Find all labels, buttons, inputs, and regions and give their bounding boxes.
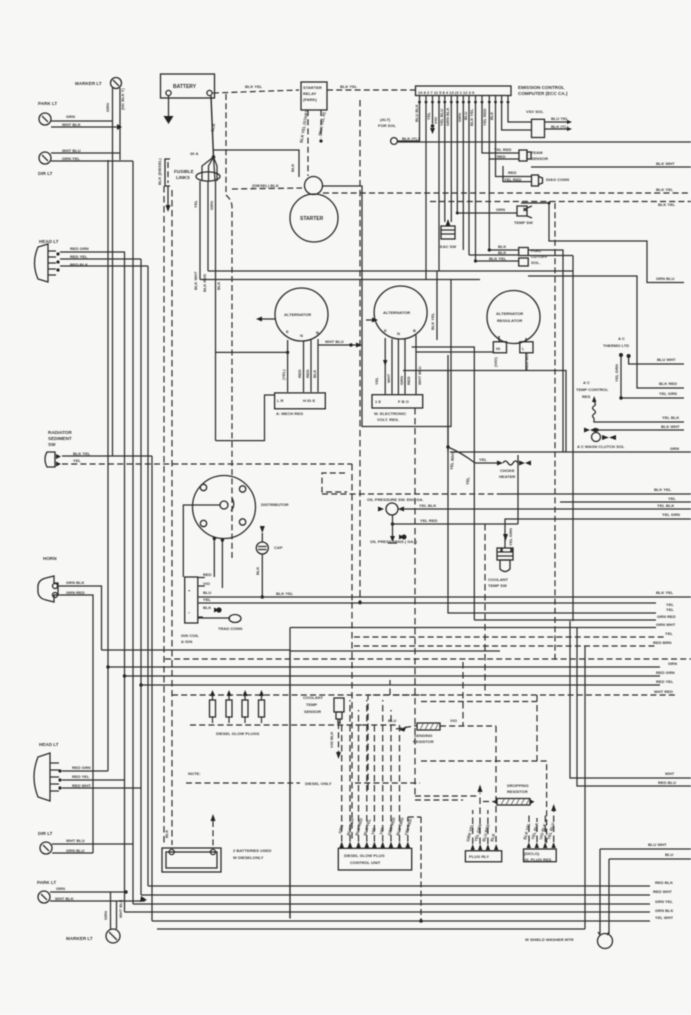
svg-text:BLU WHT: BLU WHT	[657, 357, 676, 362]
svg-text:BLK RED: BLK RED	[202, 274, 207, 292]
AC magn clutch sol	[577, 433, 625, 450]
svg-text:SW: SW	[48, 442, 56, 447]
alternator 1	[275, 288, 328, 341]
svg-text:DISTRIBUTOR: DISTRIBUTOR	[261, 502, 289, 507]
svg-text:BLK: BLK	[312, 370, 317, 378]
wire thermo down	[614, 357, 621, 398]
connector bracket left of links	[157, 158, 171, 212]
svg-text:YEL: YEL	[479, 457, 487, 462]
svg-text:W DIESELONLY: W DIESELONLY	[233, 855, 264, 860]
wire washer feeds	[600, 842, 691, 934]
svg-text:YEL GRN: YEL GRN	[508, 528, 513, 546]
wire big box left edge	[289, 628, 291, 919]
svg-text:RES: RES	[582, 394, 591, 399]
svg-text:DIESEL ONLY: DIESEL ONLY	[305, 781, 332, 786]
svg-text:RED BRN: RED BRN	[653, 640, 672, 645]
distributor	[193, 476, 289, 539]
wire coil pin stubs	[198, 572, 222, 617]
svg-text:WHT BLU: WHT BLU	[62, 148, 81, 153]
wire battery to solenoid	[214, 150, 299, 177]
svg-text:(DIESEL) BLK: (DIESEL) BLK	[252, 183, 279, 188]
svg-text:GRN BLU: GRN BLU	[656, 276, 675, 281]
radiator sediment switch	[45, 430, 91, 467]
svg-text:TEAM: TEAM	[531, 150, 543, 155]
svg-text:WHT BLU: WHT BLU	[417, 366, 422, 385]
svg-text:TEMP SW: TEMP SW	[514, 220, 533, 225]
glow plug resistor box	[522, 804, 556, 862]
svg-text:VSV SOL: VSV SOL	[526, 109, 544, 114]
dashed verticals diesel pair	[164, 186, 172, 845]
electronic volt regulator box	[372, 395, 423, 422]
svg-text:GRN RED: GRN RED	[657, 614, 676, 619]
starter motor	[290, 194, 338, 242]
wire y370 across right	[403, 371, 566, 453]
wire bottom bus yel-wht	[152, 915, 674, 921]
svg-text:VIO: VIO	[203, 581, 210, 586]
left trunk vertical 5	[140, 259, 142, 895]
wire relay down to solenoid	[299, 108, 327, 176]
wire head-light lower leads	[62, 771, 141, 788]
oil press sender	[370, 515, 418, 544]
svg-text:BLU WHT: BLU WHT	[648, 842, 667, 847]
wire blk-wht right line	[531, 161, 691, 167]
svg-text:FUSIBLE: FUSIBLE	[174, 169, 194, 174]
svg-text:RED: RED	[497, 154, 506, 159]
wire alternator1 pins to mech reg	[281, 339, 318, 392]
wire bus grn y667	[108, 661, 677, 667]
wire yel-red y524	[393, 455, 519, 524]
svg-text:GRN: GRN	[668, 661, 677, 666]
svg-text:RED WHT: RED WHT	[72, 783, 91, 788]
svg-text:BLK (DIESEL): BLK (DIESEL)	[157, 158, 162, 185]
svg-text:BLK: BLK	[498, 244, 506, 249]
wire alternator2 pins to volt reg	[374, 335, 422, 394]
svg-text:OIL PRESS SENS ( GA. ): OIL PRESS SENS ( GA. )	[370, 539, 418, 544]
wire blk-wht row	[584, 424, 684, 433]
svg-text:WHT: WHT	[665, 771, 675, 776]
svg-text:SEDIMENT: SEDIMENT	[48, 436, 72, 441]
wire fusible link feeders	[193, 181, 221, 441]
svg-text:BLK RED: BLK RED	[659, 381, 677, 386]
wire blk-yel vertical x467	[430, 271, 437, 340]
svg-text:GRN BLK: GRN BLK	[445, 107, 450, 126]
svg-text:WHT BLK: WHT BLK	[62, 122, 81, 127]
svg-text:DIR LT: DIR LT	[38, 831, 53, 836]
svg-text:YEL GRN: YEL GRN	[614, 364, 619, 382]
svg-text:BLK: BLK	[498, 250, 506, 255]
wire x563 vertical	[528, 250, 563, 452]
wire dashed x352 lower	[351, 602, 353, 842]
alternator regulator circle	[487, 291, 540, 344]
battery (main)	[161, 74, 215, 98]
svg-text:FOR SOL: FOR SOL	[378, 123, 397, 128]
AC temp control resistor	[576, 380, 684, 422]
left trunk vertical 6	[147, 266, 149, 886]
wire dashed bus y194	[323, 187, 691, 193]
park light connector (top)	[38, 101, 81, 127]
ignition coil	[181, 577, 200, 644]
svg-text:YEL: YEL	[465, 476, 471, 485]
svg-text:BLK: BLK	[216, 282, 221, 290]
svg-text:PARK LT: PARK LT	[37, 880, 56, 885]
svg-text:YEL RED: YEL RED	[420, 518, 438, 523]
svg-text:YEL BLK: YEL BLK	[662, 415, 679, 420]
svg-text:YEL RED: YEL RED	[494, 147, 512, 152]
svg-text:30 A: 30 A	[190, 151, 198, 156]
svg-text:YEL BLU: YEL BLU	[439, 109, 444, 126]
svg-text:BLK YEL: BLK YEL	[658, 202, 676, 207]
svg-text:CHOKE: CHOKE	[500, 468, 515, 473]
wire park-lt pair	[51, 121, 122, 130]
svg-text:DIAG CONN: DIAG CONN	[546, 177, 569, 182]
svg-text:TRAD CONN: TRAD CONN	[218, 626, 242, 631]
svg-text:GRN: GRN	[105, 103, 110, 112]
alternator 2	[374, 286, 427, 339]
coolant temp sensor	[303, 695, 344, 759]
park light connector (lower)	[37, 880, 74, 903]
svg-text:GRN: GRN	[103, 911, 108, 920]
svg-text:REGULATOR: REGULATOR	[497, 318, 522, 323]
starter solenoid	[305, 177, 323, 195]
svg-text:VIO: VIO	[450, 718, 457, 723]
svg-text:A C: A C	[618, 336, 625, 341]
wire yel-grn	[619, 391, 684, 400]
svg-text:DIR LT: DIR LT	[38, 171, 53, 176]
wire park-lt lower pair	[50, 890, 147, 902]
svg-text:N: N	[397, 331, 400, 336]
svg-text:PLUG RLY: PLUG RLY	[469, 854, 489, 859]
svg-text:BLU: BLU	[388, 718, 396, 723]
svg-text:HEATER: HEATER	[499, 474, 515, 479]
svg-text:RELAY: RELAY	[303, 91, 317, 96]
svg-text:GRN: GRN	[670, 446, 679, 451]
glow plug control unit	[338, 848, 411, 870]
svg-text:RADIATOR: RADIATOR	[48, 430, 73, 435]
svg-text:E: E	[384, 328, 387, 333]
svg-text:RED GRN: RED GRN	[70, 246, 89, 251]
svg-text:RED: RED	[203, 572, 212, 577]
wire blu-wht	[629, 357, 684, 364]
svg-text:HEAD LT: HEAD LT	[39, 239, 59, 244]
svg-text:BLK YEL: BLK YEL	[469, 108, 474, 126]
wire yel y502	[560, 496, 691, 502]
svg-text:BLK YEL: BLK YEL	[430, 312, 435, 330]
svg-text:& IGN: & IGN	[181, 639, 192, 644]
svg-text:(YEL): (YEL)	[281, 369, 286, 380]
svg-text:A: MECH REG: A: MECH REG	[276, 411, 303, 416]
coolant temp switch	[488, 528, 513, 588]
dropping resistor	[415, 695, 547, 843]
alt-for-sol connector	[378, 117, 420, 144]
svg-text:(NC BLK Y): (NC BLK Y)	[120, 88, 125, 110]
svg-text:SENDING: SENDING	[414, 733, 432, 738]
svg-text:YEL: YEL	[203, 597, 211, 602]
svg-text:BLK WHT: BLK WHT	[661, 424, 680, 429]
svg-text:YEL: YEL	[426, 112, 431, 120]
svg-text:B: B	[316, 330, 319, 335]
svg-text:WHT BLU: WHT BLU	[325, 339, 344, 344]
svg-text:YEL GRN: YEL GRN	[659, 391, 677, 396]
svg-text:STARTER: STARTER	[303, 85, 322, 90]
fusible links	[174, 151, 220, 181]
svg-text:COMPUTER (ECC CA.): COMPUTER (ECC CA.)	[518, 91, 568, 96]
wire right vertical v2 red-blu	[577, 628, 691, 786]
capacitor cap	[255, 526, 283, 599]
diesel glow plugs	[210, 690, 265, 736]
ground (battery)	[164, 96, 174, 124]
svg-text:BLK YEL: BLK YEL	[276, 591, 294, 596]
svg-text:TEMP: TEMP	[306, 702, 318, 707]
wire right vertical v3	[584, 646, 586, 929]
svg-text:LINKS: LINKS	[176, 175, 190, 180]
svg-text:SENSOR: SENSOR	[531, 156, 548, 161]
svg-text:GRN: GRN	[399, 376, 404, 385]
svg-text:MARKER LT: MARKER LT	[66, 936, 93, 941]
svg-text:(VIO): (VIO)	[493, 357, 498, 367]
wire yel-blk y509	[398, 503, 691, 509]
svg-text:VIO BLK: VIO BLK	[329, 732, 334, 748]
svg-text:1 E: 1 E	[375, 399, 381, 404]
svg-text:HORN: HORN	[43, 556, 57, 561]
svg-text:B: B	[413, 328, 416, 333]
svg-text:ALTERNATOR: ALTERNATOR	[383, 310, 410, 315]
wire right-side drop x549	[521, 202, 684, 283]
svg-text:GRN YEL: GRN YEL	[62, 156, 80, 161]
svg-text:GRN: GRN	[496, 207, 505, 212]
wire x573 drop	[572, 256, 574, 622]
svg-text:RED BLU: RED BLU	[658, 780, 676, 785]
svg-text:THERMO LTD: THERMO LTD	[603, 343, 629, 348]
marker light (bottom)	[66, 892, 123, 943]
wire bottom bus grn-yel	[133, 899, 673, 904]
wire bus dashed y646	[354, 640, 672, 646]
wire radiator-sw leads	[62, 456, 352, 921]
wire pin 2 to alt-fuel connector	[425, 103, 427, 280]
svg-text:YEL WHT: YEL WHT	[655, 915, 674, 920]
svg-text:RED YEL: RED YEL	[70, 254, 88, 259]
svg-text:W SHIELD WASHER MTR: W SHIELD WASHER MTR	[525, 937, 574, 942]
wire pin 1 down	[398, 103, 420, 141]
second battery	[162, 814, 271, 872]
svg-text:E: E	[286, 329, 289, 334]
trad conn	[198, 615, 243, 632]
wire bottom bus y929	[157, 928, 585, 930]
wire bus dashed wht-red y695	[172, 689, 678, 695]
svg-text:WHT BLU: WHT BLU	[66, 838, 85, 843]
svg-text:WHT BLK: WHT BLK	[118, 899, 123, 918]
svg-text:2 BATTERIES USED: 2 BATTERIES USED	[233, 848, 271, 853]
svg-text:DIESEL GLOW PLUG: DIESEL GLOW PLUG	[344, 853, 385, 858]
svg-text:RED: RED	[508, 170, 517, 175]
svg-text:BLK YEL: BLK YEL	[654, 487, 672, 492]
wire blk-yel y597	[198, 590, 691, 597]
diag connector	[503, 166, 569, 186]
wire dir-lt lower pair	[52, 844, 133, 853]
regulator terminal boxes	[493, 336, 533, 371]
svg-text:GRN: GRN	[66, 114, 75, 119]
wire x448 drop to bus	[448, 355, 656, 613]
wire bus y651	[102, 650, 291, 919]
wire pin 13 to diag conn	[496, 103, 532, 177]
svg-text:RESISTOR: RESISTOR	[507, 789, 528, 794]
svg-text:RED: RED	[406, 376, 411, 385]
svg-text:VIO: VIO	[433, 117, 438, 124]
wire diesel blk dashed to solenoid	[232, 183, 302, 189]
dir light connector (top)	[38, 148, 81, 176]
svg-text:A C MAGN CLUTCH SOL: A C MAGN CLUTCH SOL	[577, 444, 625, 449]
svg-text:TEMP SW: TEMP SW	[488, 583, 507, 588]
fuel cutoff solenoid	[469, 159, 548, 266]
wire pin 15 to VSV	[508, 103, 531, 122]
svg-text:BLK: BLK	[255, 567, 260, 575]
wire glow plug dashed bottom	[190, 717, 362, 725]
oil pressure switch	[367, 497, 436, 515]
wire distributor to coil	[183, 505, 224, 588]
ECC pin stubs	[418, 96, 509, 104]
svg-text:BATTERY: BATTERY	[173, 84, 197, 90]
svg-text:(ALT): (ALT)	[380, 117, 391, 122]
svg-text:WHT RED: WHT RED	[654, 689, 673, 694]
wire dashed x360 drop	[359, 100, 361, 603]
svg-text:BLK: BLK	[203, 605, 211, 610]
svg-text:PARK LT: PARK LT	[38, 101, 57, 106]
svg-text:RED YEL: RED YEL	[656, 679, 674, 684]
wire yel y603	[198, 602, 675, 607]
svg-text:CAP: CAP	[274, 545, 283, 550]
svg-text:BLU BLK: BLU BLK	[414, 104, 419, 122]
svg-text:DROPPING: DROPPING	[507, 783, 529, 788]
svg-text:BLK: BLK	[290, 164, 295, 172]
svg-text:EMISSION CONTROL: EMISSION CONTROL	[518, 85, 565, 90]
wire alternator2 left pin	[366, 318, 378, 323]
wire grn line y452	[450, 446, 691, 452]
svg-text:YEL: YEL	[73, 458, 81, 463]
VSV solenoid	[526, 109, 572, 138]
wire bottom bus red-blk	[148, 880, 673, 886]
marker light (top)	[75, 78, 122, 89]
svg-text:WHT BLK: WHT BLK	[55, 896, 74, 901]
svg-text:YEL: YEL	[374, 377, 379, 385]
svg-text:BLK YEL: BLK YEL	[340, 84, 358, 89]
svg-text:TEMP CONTROL: TEMP CONTROL	[576, 387, 609, 392]
wire pin 7 to temp sw	[456, 103, 458, 213]
svg-text:GRN BLU: GRN BLU	[66, 848, 85, 853]
mech regulator box	[275, 393, 326, 416]
svg-text:GRN BLK: GRN BLK	[66, 580, 85, 585]
left trunk vertical 3	[124, 252, 126, 912]
svg-text:BLU: BLU	[665, 852, 673, 857]
svg-text:GRN BLK: GRN BLK	[655, 908, 674, 913]
wire bottom bus red-wht	[141, 889, 672, 895]
svg-text:(DICLO): (DICLO)	[524, 851, 540, 856]
svg-text:RED: RED	[297, 369, 302, 378]
svg-text:COOLANT: COOLANT	[488, 577, 509, 582]
svg-text:YEL: YEL	[665, 631, 673, 636]
AC thermo limiter	[603, 336, 631, 358]
wire bus dashed y659	[165, 658, 691, 660]
svg-text:BLK YEL: BLK YEL	[656, 187, 674, 192]
wire dashed jog near distributor	[322, 473, 347, 492]
left trunk vertical 1	[107, 160, 109, 771]
svg-text:RESISTOR: RESISTOR	[413, 739, 434, 744]
svg-text:ALTERNATOR: ALTERNATOR	[496, 311, 523, 316]
wire solenoid to enclosure	[323, 186, 452, 427]
svg-text:SOL.: SOL.	[531, 260, 540, 265]
wire ECC pin labels	[414, 104, 494, 126]
svg-text:GRN: GRN	[56, 886, 65, 891]
wire control unit pins	[337, 700, 412, 848]
wire wht-blu to alternator2	[318, 339, 362, 348]
left trunk vertical 4	[132, 161, 134, 904]
plug relay	[463, 662, 502, 862]
wire dashed x485	[484, 524, 486, 695]
choke heater	[475, 457, 531, 479]
wire pin 3 arrow stub	[430, 103, 435, 134]
wire x637 blk-red	[528, 276, 684, 388]
wire bus red-grn y676	[125, 670, 675, 676]
wire dashed x415	[414, 408, 416, 796]
svg-text:CONTROL UNIT: CONTROL UNIT	[350, 860, 381, 865]
wire dashed jog to relay area	[408, 800, 463, 923]
node junctions trunk	[106, 665, 142, 686]
svg-text:RED WHT: RED WHT	[653, 889, 672, 894]
emission control computer U1	[416, 85, 568, 96]
wire pin 12 to team sensor	[489, 103, 519, 159]
starter relay	[301, 82, 327, 110]
svg-text:GRN RED: GRN RED	[66, 590, 85, 595]
svg-text:RED GRN: RED GRN	[72, 765, 91, 770]
svg-text:COOLANT: COOLANT	[303, 695, 324, 700]
dir light connector (lower)	[38, 831, 85, 854]
svg-text:L R: L R	[277, 398, 284, 403]
svg-text:(PARK): (PARK)	[303, 97, 318, 102]
svg-text:BLK (YL): BLK (YL)	[551, 124, 569, 129]
svg-text:CUTOFF: CUTOFF	[531, 254, 548, 259]
horn	[38, 556, 85, 602]
svg-text:ALTERNATOR: ALTERNATOR	[284, 312, 311, 317]
svg-text:EAC SW: EAC SW	[440, 244, 456, 249]
dashed box diesel area	[368, 680, 423, 790]
wire right vertical v1 wht	[570, 621, 691, 778]
wire blk-yel dashed y494	[322, 487, 691, 494]
svg-text:IG: IG	[496, 346, 500, 351]
wire bus dashed y637	[354, 631, 673, 637]
wire y347 from alt2 to x474	[412, 347, 475, 620]
wire pin 6 down	[450, 103, 452, 222]
svg-text:YEL: YEL	[666, 607, 674, 612]
svg-text:YEL: YEL	[193, 200, 198, 208]
svg-text:H IG E: H IG E	[303, 398, 315, 403]
svg-text:IGN COIL: IGN COIL	[181, 633, 200, 638]
svg-text:VOLT. REG.: VOLT. REG.	[377, 417, 399, 422]
temp switch	[456, 206, 533, 225]
wire bus y628	[290, 622, 676, 628]
wire battery positive feed	[210, 96, 217, 157]
wire dir-lt pair	[51, 153, 133, 161]
wire bottom bus grn-blk	[125, 908, 674, 913]
svg-text:HEAD LT: HEAD LT	[39, 742, 59, 747]
svg-text:GRN YEL: GRN YEL	[655, 899, 673, 904]
svg-text:GRN: GRN	[209, 201, 214, 210]
svg-text:BLK YEL: BLK YEL	[245, 84, 263, 89]
svg-text:OIL PRESSURE SW. ENC.GA.: OIL PRESSURE SW. ENC.GA.	[367, 497, 424, 502]
svg-text:BLK WHT: BLK WHT	[193, 271, 198, 290]
wire bus grn-wht y621	[474, 614, 675, 620]
svg-text:YEL GRN: YEL GRN	[662, 512, 680, 517]
sending resistor	[362, 718, 496, 744]
wire y273 pair	[208, 270, 573, 272]
svg-text:W. ELECTRONIC: W. ELECTRONIC	[374, 411, 406, 416]
